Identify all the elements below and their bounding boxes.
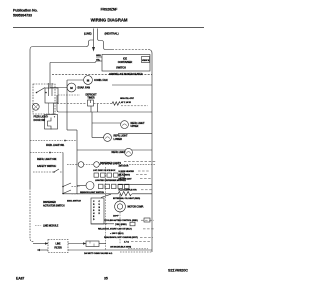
- svg-text:E: E: [93, 216, 95, 218]
- wire row to edge: [118, 132, 152, 134]
- long wire row C with heater coil: [63, 193, 118, 195]
- svg-text:RELAY/OVL START CAP. KIT (BLK): RELAY/OVL START CAP. KIT (BLK): [98, 227, 132, 230]
- svg-text:REFR. LIGHT: REFR. LIGHT: [114, 136, 129, 138]
- trailing dashes on notes rows: [131, 220, 155, 241]
- svg-text:ACTUATOR SWITCH: ACTUATOR SWITCH: [43, 205, 65, 208]
- svg-text:1/4 WATT OHMS VALUES 4 Ω: 1/4 WATT OHMS VALUES 4 Ω: [84, 252, 113, 255]
- wire from fan box down: [53, 103, 55, 115]
- svg-text:LINE: LINE: [56, 243, 61, 245]
- compressor motor: [115, 201, 126, 212]
- wire into filter with arrow: [33, 243, 48, 245]
- svg-text:EA87: EA87: [16, 277, 24, 281]
- freezer fan junction box: [45, 88, 58, 103]
- connector strip bottom wire: [91, 223, 114, 225]
- dashed dispenser light row: [67, 164, 156, 166]
- wire feed to ice box: [50, 61, 96, 63]
- dispenser connector strip: [91, 198, 104, 224]
- selector switch diagonal: [101, 194, 111, 197]
- svg-text:D: D: [99, 213, 101, 215]
- wire vertical inner left: [49, 63, 51, 88]
- wire stub down to refr light upper: [92, 122, 121, 124]
- svg-text:H: H: [93, 213, 95, 215]
- view b box: [142, 57, 150, 63]
- svg-text:VIEW B: VIEW B: [142, 60, 150, 62]
- svg-text:HI SIDE HEATER: HI SIDE HEATER: [119, 170, 135, 173]
- condenser fan motor: [84, 76, 93, 85]
- svg-text:REFR. LIGHT SW.: REFR. LIGHT SW.: [37, 158, 57, 161]
- freezer compartment dashed box: [33, 84, 55, 114]
- line filter dashed box: [48, 240, 68, 253]
- wire row right short: [118, 184, 152, 186]
- svg-text:MAN. SWITCH: MAN. SWITCH: [67, 199, 81, 202]
- svg-text:(LINE): (LINE): [84, 32, 92, 36]
- dashed wire freezer to center: [58, 94, 80, 96]
- svg-text:SAFETY SWITCH: SAFETY SWITCH: [37, 165, 56, 168]
- ice maker box: [102, 55, 150, 72]
- freezer light bulb: [32, 103, 39, 110]
- external oil heater coil: [118, 191, 132, 195]
- evaporator fan motor: [67, 83, 76, 92]
- dashed wire safety switch row: [33, 171, 53, 173]
- compressor notes block: [98, 216, 138, 244]
- dashed verticals under compressor: [105, 167, 107, 250]
- svg-text:U: U: [93, 207, 95, 209]
- dashed wire freezer light sw row: [30, 140, 63, 142]
- wire vertical to actuator switches: [62, 153, 64, 194]
- svg-text:FRZR LIGHT: FRZR LIGHT: [34, 116, 48, 119]
- svg-text:C: C: [99, 201, 101, 203]
- svg-text:D: D: [93, 219, 95, 221]
- refr light mid bulb: [125, 148, 133, 156]
- cabinet outline left side lower (dashed): [30, 188, 34, 242]
- svg-text:MOTOR COMP.: MOTOR COMP.: [128, 207, 144, 209]
- svg-text:HI-LO BAFFLE HTR: HI-LO BAFFLE HTR: [119, 189, 138, 192]
- svg-text:E: E: [99, 210, 101, 212]
- dashed row below refr light: [124, 161, 156, 163]
- wire row D from filter: [68, 243, 86, 245]
- svg-text:S21V6920C: S21V6920C: [168, 269, 188, 273]
- dashed wire to defrost thermostat: [94, 103, 113, 105]
- wire to cond fan: [67, 79, 84, 81]
- cabinet outline left side: [30, 47, 33, 189]
- svg-text:C: C: [93, 201, 95, 203]
- long wire row B: [77, 149, 152, 151]
- refr light upper bulb: [121, 121, 129, 129]
- svg-text:+ 100°C (BLU): + 100°C (BLU): [110, 233, 124, 235]
- dashed wire refr light sw row: [30, 152, 49, 154]
- svg-text:CONTAINER: CONTAINER: [118, 60, 133, 64]
- wire stub grn into ice box: [96, 56, 102, 58]
- svg-text:LIGHTED DISPENSER MODULE: LIGHTED DISPENSER MODULE: [95, 180, 126, 182]
- svg-text:COOLING AFTER CONTROL (RED): COOLING AFTER CONTROL (RED): [104, 219, 138, 222]
- cabinet outline bottom-right (dashed): [120, 251, 152, 253]
- svg-text:DISPENSER: DISPENSER: [43, 202, 56, 204]
- svg-text:FRS26ZNF: FRS26ZNF: [101, 8, 118, 12]
- svg-text:(BLK) (WHT): (BLK) (WHT): [119, 174, 131, 176]
- svg-text:GRN: GRN: [96, 55, 101, 57]
- wire compressor to row C: [119, 194, 121, 201]
- svg-text:LINE MODULE: LINE MODULE: [43, 226, 59, 228]
- power cord neutral conductor: [98, 29, 113, 50]
- header rule: [13, 27, 204, 29]
- svg-text:R: R: [93, 204, 95, 206]
- refr light lower bulb: [92, 137, 104, 139]
- wire vertical center: [97, 104, 99, 113]
- svg-text:100°F: 100°F: [113, 216, 119, 218]
- svg-text:REFR. LIGHT: REFR. LIGHT: [112, 152, 127, 154]
- dispenser actuator switch upper: [62, 186, 64, 188]
- svg-text:4.7 Ω: 4.7 Ω: [124, 240, 129, 243]
- svg-text:(NEUTRAL): (NEUTRAL): [105, 32, 119, 36]
- dashed wire under ice box with heater label: [52, 74, 152, 76]
- auger motor: [86, 182, 94, 190]
- svg-text:AT 1 1/4 W: AT 1 1/4 W: [121, 101, 131, 104]
- defrost thermostat zigzag: [112, 102, 120, 106]
- svg-text:S: S: [93, 210, 95, 212]
- svg-text:REFR. LIGHT: REFR. LIGHT: [131, 123, 146, 125]
- svg-text:GRN-YEL 4757: GRN-YEL 4757: [120, 97, 135, 100]
- legend dotted line: [35, 225, 42, 227]
- svg-text:READING/OL NOT CHARGE (WHT): READING/OL NOT CHARGE (WHT): [104, 236, 138, 239]
- svg-text:WIRING DIAGRAM: WIRING DIAGRAM: [91, 18, 128, 23]
- defrost timer symbol: [88, 100, 94, 106]
- connector blocks row 1: [94, 173, 99, 177]
- cabinet outline top-right (dashed) + right corner: [112, 49, 148, 51]
- svg-text:UPPER: UPPER: [131, 126, 139, 128]
- svg-text:(YEL) (RED): (YEL) (RED): [115, 224, 127, 226]
- svg-text:LGT. DISP. DE ICE BOX: LGT. DISP. DE ICE BOX: [93, 170, 116, 172]
- cabinet outline top-left: [33, 40, 94, 47]
- freezer door switch box: [45, 115, 58, 130]
- long wire row A: [57, 95, 152, 112]
- svg-text:LOWER: LOWER: [114, 139, 123, 141]
- svg-text:35: 35: [104, 277, 108, 281]
- power cord line conductor with ground arrow: [93, 29, 95, 48]
- svg-text:COND. FAN: COND. FAN: [94, 78, 108, 82]
- wire to evap fan: [50, 87, 67, 89]
- svg-text:EVAP. FAN: EVAP. FAN: [78, 86, 91, 90]
- svg-text:U: U: [99, 204, 101, 206]
- defrost timer dashed wire: [57, 103, 86, 105]
- svg-text:GRN/YEL ICE MAKER HEATER: GRN/YEL ICE MAKER HEATER: [109, 73, 143, 76]
- svg-text:TIMER: TIMER: [87, 97, 94, 100]
- right column rows: [112, 84, 152, 86]
- svg-text:EXTERNAL OIL HEAT (RED): EXTERNAL OIL HEAT (RED): [113, 197, 140, 200]
- dispenser actuator switch lower: [62, 193, 64, 195]
- svg-text:5995394733: 5995394733: [13, 14, 32, 18]
- run capacitor on row D: [86, 241, 99, 247]
- wire row E from filter: [68, 249, 152, 251]
- dispenser light bulb: [78, 162, 84, 168]
- svg-text:B: B: [99, 207, 101, 209]
- wire junction vertical: [66, 80, 68, 130]
- wire out of filter lower-left with arrow: [37, 249, 48, 251]
- svg-text:FILTER: FILTER: [54, 247, 62, 249]
- svg-text:DOOR SW: DOOR SW: [34, 119, 46, 122]
- svg-text:DISPENSER LIGHTS: DISPENSER LIGHTS: [100, 163, 121, 165]
- svg-text:FRZR. LIGHT SW.: FRZR. LIGHT SW.: [46, 145, 65, 147]
- dashed wire after thermostat: [121, 105, 148, 107]
- svg-text:ICE: ICE: [123, 56, 127, 60]
- header publication number text: [13, 9, 38, 18]
- svg-text:Publication No.: Publication No.: [13, 9, 38, 13]
- freezer light switch: [36, 92, 38, 94]
- svg-text:SWITCH: SWITCH: [116, 66, 126, 70]
- small tag boxes: [144, 218, 150, 222]
- connector blocks row 2: [99, 184, 104, 188]
- wire stub yel into ice box: [96, 60, 102, 62]
- svg-text:ON MODE (BLK GRN): ON MODE (BLK GRN): [110, 247, 131, 249]
